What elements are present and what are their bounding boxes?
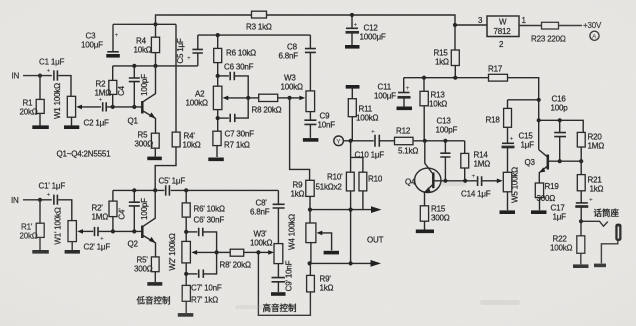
resistor R8' [217,249,259,269]
node C16 line junctions [537,118,562,122]
ground R1 [32,125,49,129]
wire IN lead [23,75,52,77]
wire W3 wiper [290,96,306,101]
resistor R1 [20,76,45,126]
resistor R2 [95,66,117,107]
ground jack [594,264,606,268]
potentiometer W1 [53,83,101,126]
wire R10 link down [350,210,352,264]
capacitor C1 [39,58,65,81]
resistor R6' [182,190,225,241]
wire C16 line y120.3 [539,120,584,132]
regulator U1 7812 [478,16,527,49]
wire Q1 base line [107,106,142,108]
node A terminal [590,31,599,40]
wire R23 to +30V [559,25,583,27]
node IN junction [38,74,42,78]
text Q1-Q4 type [57,150,112,159]
capacitor C8 [279,35,316,91]
resistor R17 [488,65,508,82]
capacitor C4 [117,66,149,107]
wire C1 to W1 [58,76,71,97]
node W3' wiper junction [256,250,260,254]
resistor R7' [182,285,218,313]
resistor R18 [486,100,512,144]
resistor R19 [535,182,559,210]
wire tone line y35 [198,34,311,36]
resistor R23 [531,22,566,43]
capacitor C8' [250,190,285,243]
ground C9 [303,138,319,142]
wire supply line y77.7 [404,78,539,150]
capacitor C11 [374,78,411,107]
ground R22 [573,264,589,268]
wire OUT1 line [310,206,382,213]
wire IN2 lead [23,199,52,201]
capacitor C1' [39,182,66,205]
node IN top channel [12,72,20,81]
capacitor C15 [502,132,535,173]
wire Q4 base line [433,180,477,182]
node R15 junction [453,23,457,27]
ground C12 [345,45,360,49]
potentiometer W5 [503,167,519,210]
ground W1 [64,125,79,129]
resistor R2' [92,190,118,231]
node Q3 base junctions [558,159,584,163]
potentiometer W3' [250,230,283,264]
node OUT1 junctions [308,208,353,212]
resistor R3 [246,11,272,31]
resistor R5' [134,256,159,283]
node W3 wiper junction [288,96,292,100]
wire collector node line y65.9 [113,65,198,67]
resistor R21 [577,161,603,203]
potentiometer W4 [288,210,332,264]
node C12 junction [350,13,354,17]
node IN2 junction [38,198,42,202]
resistor R10 [351,157,383,209]
wire W3' wiper [258,250,274,255]
wire 7812 pin1 to R23 [519,25,542,27]
wire jack switch [581,221,608,226]
ground R5' [147,282,162,286]
resistor R6 [214,35,256,86]
transistor Q2 [128,190,156,257]
resistor R1' [20,200,45,250]
potentiometer A2 [186,86,249,109]
wire OUT2 line [310,260,381,267]
ground W1' [65,250,80,254]
node supply junctions [422,76,458,80]
connector mic jack [615,224,621,241]
capacitor C13 [436,117,458,181]
ground R19 [531,210,547,214]
ground C9' [271,292,286,296]
ground W5 [500,210,516,214]
capacitor C5 [176,35,203,66]
wire C3 rail y24 [113,23,176,25]
capacitor C10 [355,129,385,160]
capacitor C2' [84,227,111,252]
ground W4 wiper [324,251,339,255]
wire R18 line y99.8 [508,99,539,101]
node R18 line junction [537,98,541,102]
resistor R9 [291,180,315,209]
capacitor C16 [551,95,569,162]
text bass control [136,296,172,306]
resistor R11 [346,87,379,141]
wire jack to ground [601,241,617,263]
ground R15b [416,230,434,234]
capacitor C6' [186,216,224,253]
resistor R12 [380,127,465,156]
node +30V [583,21,602,30]
resistor R20 [577,132,604,161]
resistor R14 [461,141,490,181]
text treble control [263,303,298,313]
node tone line junction [216,33,220,37]
resistor R8 [248,94,289,114]
node base junctions [111,105,137,109]
ground R7 [208,158,224,162]
potentiometer W3 [281,74,315,112]
text OUT [367,236,384,245]
wire W3 wiper to R9 [290,98,310,180]
wire Q2 base line [99,230,142,232]
ground R1' [32,250,49,254]
node Q4 base junctions [443,179,467,183]
node collector line junctions [132,64,157,68]
resistor R4' [155,24,201,190]
node Q2 base junctions [111,229,137,233]
node C6' tap [184,230,188,234]
resistor R13 [420,78,447,141]
capacitor C14 [461,173,503,199]
resistor R4 [134,24,160,66]
capacitor C3 [81,24,119,52]
resistor R10' [316,141,355,210]
ground C3 [106,54,120,58]
wire Q2 collector rail y190 [113,189,279,191]
resistor R22 [550,221,585,264]
ground C11 [397,107,413,111]
wire top supply rail y15 [156,15,488,25]
node Y terminal [334,136,344,146]
node A2 wiper junction [246,96,250,100]
node C6 tap [216,74,220,78]
capacitor C5' [159,177,186,196]
potentiometer W1' [54,207,94,250]
transistor Q1 [128,66,156,133]
capacitor C17 [551,197,594,222]
node rail junctions [132,188,188,192]
node OUT2 junctions [308,261,353,265]
capacitor C12 [346,15,386,45]
capacitor C7 [216,98,254,139]
capacitor C9' [272,260,294,292]
resistor R15' 300ohm [420,205,449,230]
capacitor C7' [184,252,222,292]
node C17 R22 junction [579,219,583,223]
ground R5 [147,157,162,161]
node IN bottom channel [11,196,19,205]
capacitor C2 [84,97,110,128]
resistor R7 [213,131,250,157]
wire Q3 base line [548,160,581,162]
transistor Q3 [525,150,548,183]
node R11 R10 junction [349,139,353,143]
node R4 top junction [153,22,157,26]
resistor R15 [434,25,460,78]
potentiometer W2' [168,233,217,270]
capacitor C9 [304,112,335,138]
node R13 Q4 junction [423,139,448,143]
transistor Q4 [405,141,441,206]
text mic jack [594,208,620,218]
capacitor C6 [218,63,254,98]
resistor R9' [258,252,333,315]
wire C1' to W1' [58,200,72,221]
wire Y line to C10 [343,140,373,142]
node W2' wiper junction [215,250,219,254]
resistor R5 [135,131,160,157]
capacitor C4' [118,190,150,231]
ground R7' [178,313,194,317]
